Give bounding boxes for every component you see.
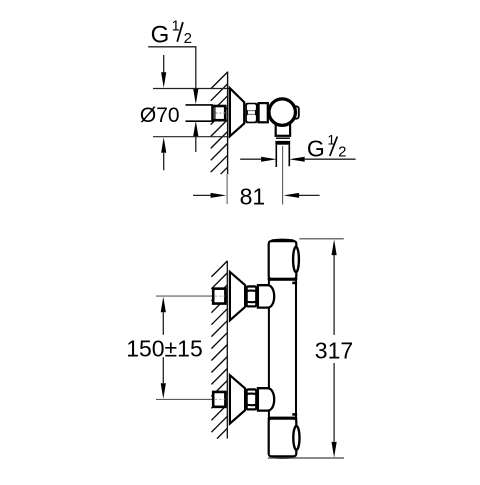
svg-text:1: 1: [172, 19, 180, 35]
wall nut upper (bottom view): [213, 289, 225, 304]
svg-text:150±15: 150±15: [126, 335, 203, 361]
bar bottom cap: [269, 419, 297, 457]
extension line upper connection (150±15): [156, 295, 226, 297]
dimension 317 line segments: [333, 255, 335, 335]
valve right cap (top view): [293, 106, 299, 118]
extension line bottom of escutcheon (Ø70): [153, 136, 229, 138]
extension line bar bottom (317): [268, 457, 344, 459]
svg-text:317: 317: [315, 338, 353, 364]
svg-text:G: G: [151, 21, 170, 48]
spacer sleeve (top view): [259, 103, 268, 122]
wall union nut (top view): [213, 106, 226, 120]
wall hatch (bottom view): [211, 261, 227, 439]
leader line G1/2 supply: [148, 47, 196, 89]
valve body circle (top view): [269, 99, 296, 126]
top tick mark: [292, 282, 297, 285]
svg-text:G: G: [307, 135, 325, 161]
inlet dome lower (bottom view): [258, 388, 274, 410]
outlet neck (top view): [276, 113, 290, 136]
wall hatch (top view): [211, 72, 228, 174]
svg-text:2: 2: [338, 143, 346, 160]
inlet dome upper (bottom view): [258, 285, 274, 307]
dimension label G1/2 (supply, top-left): [151, 19, 192, 49]
bar top cap: [269, 241, 297, 279]
connection hex nut upper (bottom view): [247, 286, 257, 306]
supply pipe (top view): [186, 106, 213, 121]
svg-text:81: 81: [240, 183, 266, 209]
arrow down to pipe top: [193, 89, 198, 105]
bottom tick mark: [292, 413, 297, 416]
wall line (top view): [227, 72, 229, 175]
dimension 81 line left: [193, 194, 211, 196]
arrow down (317): [332, 442, 337, 458]
extension line bar top (317): [299, 238, 344, 240]
arrow up to pipe bottom: [195, 136, 197, 152]
outlet pipe (top view): [275, 145, 277, 167]
escutcheon cone lower (bottom view): [230, 375, 245, 423]
top cap end ellipse: [293, 247, 299, 272]
svg-text:2: 2: [184, 30, 192, 47]
connection hex nut lower (bottom view): [247, 389, 257, 409]
outlet collar bands (top view): [276, 137, 290, 139]
dimension label G1/2 (outlet): [307, 132, 347, 162]
bottom cap end ellipse: [293, 426, 299, 450]
arrow up (317): [332, 239, 337, 255]
bottom cap joint line: [268, 418, 298, 420]
escutcheon cone upper (bottom view): [230, 272, 245, 320]
dimension Ø70 arrows: [163, 55, 165, 73]
dimension 150±15 line segments: [162, 312, 164, 335]
dimension G1/2 outlet line left: [240, 158, 261, 160]
outlet centerline / extension (81 dim): [282, 146, 284, 205]
dimension 81 line right: [283, 193, 299, 198]
extension line lower connection (150±15): [156, 398, 226, 400]
wall line (bottom view): [226, 261, 228, 439]
arrow down (150±15): [161, 383, 166, 399]
escutcheon cone (top view): [230, 88, 244, 136]
arrow up (150±15): [161, 297, 166, 313]
dimension G1/2 outlet line right: [289, 157, 305, 162]
wall nut lower (bottom view): [213, 392, 225, 407]
connection hex nut (top view): [245, 103, 257, 124]
extension line top of escutcheon (Ø70): [153, 88, 230, 90]
svg-text:Ø70: Ø70: [140, 104, 180, 127]
shower bar tube: [269, 280, 296, 418]
top cap joint line: [268, 278, 298, 280]
wall extension line (81 dim, gray): [226, 174, 228, 204]
